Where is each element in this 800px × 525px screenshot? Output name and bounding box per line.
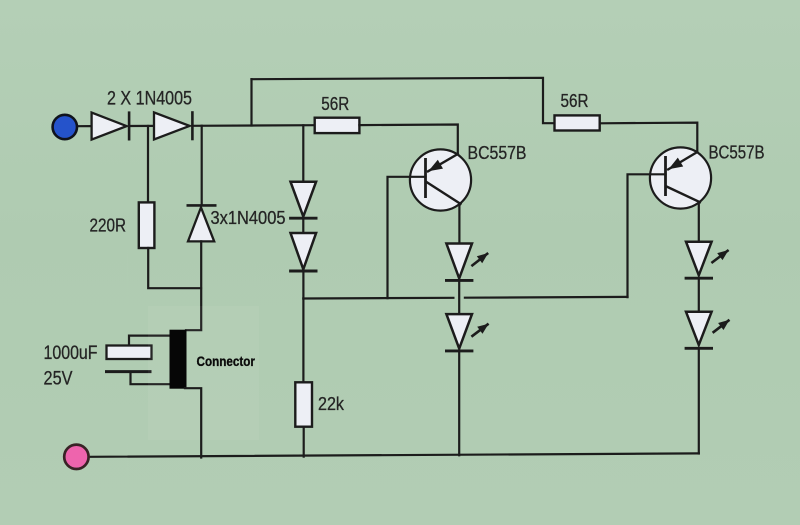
capacitor C1 bottom plate [105, 370, 152, 373]
bus wire: crossover gap to Q2 base riser [465, 296, 628, 299]
capacitor C1 top lead [129, 336, 171, 346]
svg-text:1000uF: 1000uF [44, 342, 98, 364]
terminal J2 negative (pink) [64, 445, 88, 469]
transistor Q1 BC557B body [410, 149, 471, 210]
wire: Q1 base lead [388, 177, 426, 298]
cathode bar of D6 [445, 279, 473, 282]
wire: D7 to bottom rail [458, 351, 460, 455]
cathode bar of D2 [191, 111, 194, 140]
svg-text:56R: 56R [561, 91, 589, 111]
transistor Q2 BC557B body [650, 147, 711, 208]
capacitor C1 bottom lead [131, 372, 171, 385]
resistor 220R body [139, 202, 155, 248]
cathode bar of D1 [128, 111, 131, 140]
cathode bar of D5 [289, 270, 317, 273]
Q1 collector diagonal [427, 182, 461, 204]
LED D7 [446, 314, 472, 348]
wire: 220R bottom to D3 line [148, 248, 201, 288]
wire: D1 to D2 [129, 125, 154, 127]
resistor R2 56R body [555, 115, 600, 130]
diode D4 [291, 182, 317, 217]
svg-text:Connector: Connector [197, 354, 256, 369]
wire: R1 to Q1 emitter riser [359, 125, 457, 155]
D9 light arrow [713, 320, 730, 333]
capacitor C1 top plate [107, 346, 152, 360]
wire: D5 down to 22k [302, 271, 304, 382]
cathode bar of D9 [685, 347, 713, 350]
svg-text:2 X 1N4005: 2 X 1N4005 [107, 88, 192, 109]
wire: Q1 collector down to LED chain 1 [458, 205, 460, 244]
diode D3 3x1N4005 (pointing up) [188, 207, 214, 241]
diode D1 1N4005 [92, 113, 127, 140]
terminal J1 positive (blue) [53, 115, 77, 139]
svg-text:BC557B: BC557B [468, 143, 527, 163]
cathode bar of D4 [289, 217, 317, 220]
wire: tap down to D3 [201, 126, 203, 206]
wire: D3 down to connector [186, 241, 201, 330]
svg-text:BC557B: BC557B [709, 142, 765, 162]
Q2 emitter diagonal [668, 152, 697, 169]
LED D9 [686, 312, 712, 345]
LED D6 [446, 244, 472, 279]
wire: blue terminal to D1 [76, 125, 92, 127]
wire: D8 to D9 [698, 278, 700, 312]
wire: riser to top rail [250, 79, 252, 125]
top rail wire [252, 78, 555, 123]
svg-text:25V: 25V [44, 367, 73, 389]
wire: D6 to D7 [458, 280, 460, 314]
wire: main rail D2 to R1 [192, 124, 314, 127]
Q2 base bar [664, 156, 667, 196]
wire: 22k to bottom rail [303, 427, 305, 457]
resistor R3 22k body [295, 382, 312, 426]
wire: Q2 collector down to LED chain 2 [698, 203, 700, 242]
wire: R2 to Q2 emitter riser [600, 123, 698, 153]
cathode bar of D3 [187, 204, 217, 207]
LED D8 [686, 242, 712, 276]
D8 light arrow [711, 250, 728, 263]
resistor R1 56R body [315, 118, 360, 133]
bus wire: D5/22k node to crossover gap [303, 297, 453, 300]
svg-text:56R: 56R [321, 94, 349, 114]
D6 light arrow [471, 253, 488, 266]
cathode bar of D8 [685, 277, 713, 280]
Q1 base bar [424, 158, 427, 198]
wire: D4 to D5 [302, 218, 304, 233]
wire: connector bottom to bottom rail [185, 388, 201, 457]
cathode bar of D7 [445, 349, 473, 352]
D7 light arrow [471, 324, 488, 337]
wire: tap down to 220R [147, 126, 149, 203]
Q2 emitter arrow (PNP) [669, 158, 684, 170]
svg-text:22k: 22k [318, 394, 345, 414]
bottom rail wire [90, 453, 699, 456]
svg-text:220R: 220R [90, 216, 127, 236]
connector body (black) [170, 330, 187, 389]
Q1 emitter arrow (PNP) [428, 160, 443, 172]
diode D2 1N4005 [154, 112, 190, 139]
wire: Q2 base lead [628, 174, 666, 297]
wire: D9 to bottom rail [698, 348, 700, 453]
diode D5 [291, 233, 317, 269]
Q2 collector diagonal [667, 187, 700, 203]
svg-text:3x1N4005: 3x1N4005 [211, 208, 286, 228]
Q1 emitter diagonal [428, 154, 458, 171]
pasted label patch behind Connector [148, 306, 259, 440]
wire: rail tap down to D4 [302, 125, 304, 181]
